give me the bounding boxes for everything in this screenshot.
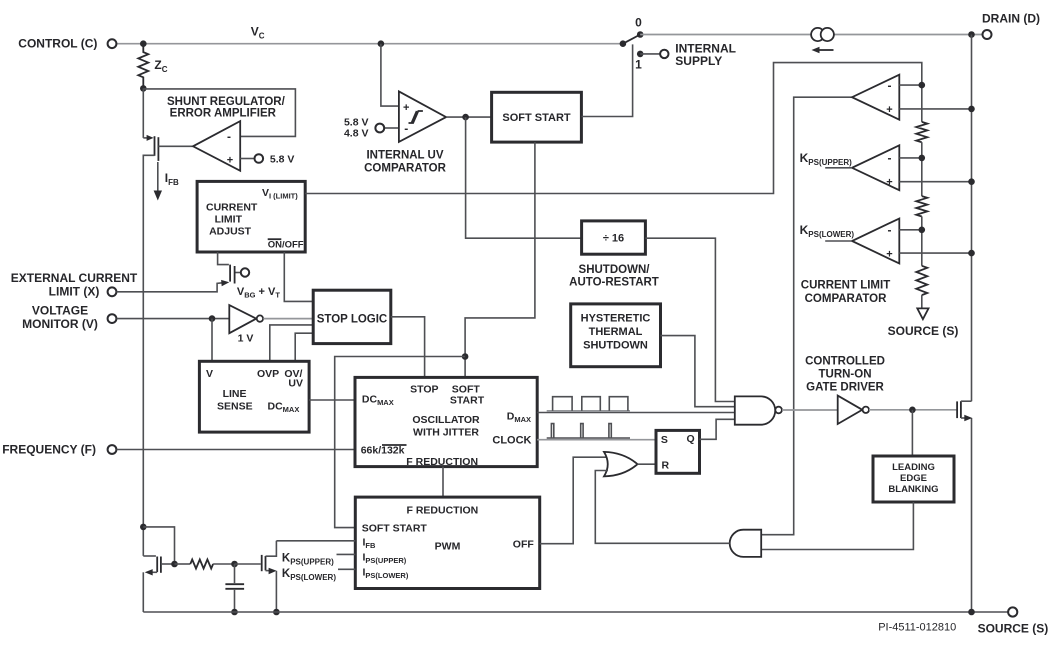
svg-text:PI-4511-012810: PI-4511-012810 — [878, 621, 956, 633]
wire soft start to switch — [581, 44, 632, 116]
svg-text:LEADING: LEADING — [892, 462, 935, 473]
node junction chain top — [919, 82, 926, 89]
transistor Q5 output MOSFET — [956, 401, 958, 418]
svg-text:TURN-ON: TURN-ON — [818, 368, 871, 380]
wire latch Q output to NAND — [700, 419, 738, 439]
svg-text:DRAIN (D): DRAIN (D) — [982, 12, 1040, 26]
divide-by-16 box — [582, 221, 646, 254]
svg-text:+: + — [403, 102, 409, 114]
svg-text:66k/132k: 66k/132k — [361, 444, 405, 456]
svg-text:F REDUCTION: F REDUCTION — [407, 504, 479, 516]
svg-text:LIMIT (X): LIMIT (X) — [49, 285, 100, 299]
transistor Q4 current mirror output — [261, 555, 263, 571]
svg-text:LIMIT: LIMIT — [215, 214, 243, 226]
wire comparator 1 - input — [899, 84, 922, 86]
node junction drain sense 1 — [968, 106, 975, 113]
wire comparator 2 - input — [899, 157, 922, 159]
svg-text:SOFT START: SOFT START — [362, 522, 428, 534]
wire K_PS(LOWER) stub to PWM — [338, 568, 355, 570]
resistor R3 divider bottom — [916, 266, 927, 295]
wire soft start bottom to soft start net — [465, 142, 535, 377]
wire V junction down to line sense — [211, 319, 213, 362]
svg-text:+: + — [227, 154, 233, 166]
svg-text:R: R — [662, 460, 670, 472]
transistor Q1 shunt MOSFET — [143, 137, 150, 139]
svg-text:ERROR AMPLIFIER: ERROR AMPLIFIER — [170, 108, 277, 120]
node junction capacitor to rail — [231, 609, 238, 616]
svg-text:SHUTDOWN: SHUTDOWN — [583, 339, 648, 351]
node junction chain 3 — [919, 227, 926, 234]
svg-text:CURRENT LIMIT: CURRENT LIMIT — [801, 279, 890, 291]
svg-text:SENSE: SENSE — [217, 400, 253, 412]
terminal SOURCE (S) — [1008, 607, 1017, 616]
svg-text:Q: Q — [687, 433, 695, 445]
node junction V input — [209, 315, 216, 322]
svg-text:SOURCE (S): SOURCE (S) — [978, 621, 1049, 635]
svg-text:-: - — [404, 122, 408, 136]
node junction on V_C at Z_C — [140, 40, 147, 47]
wire V input — [117, 318, 230, 320]
node junction drain — [968, 31, 975, 38]
wire gate node to resistor R4 — [175, 563, 191, 565]
wire drain vertical rail — [971, 35, 973, 402]
node junction chain 2 — [919, 155, 926, 162]
wire soft start net to PWM — [335, 357, 465, 528]
svg-text:ADJUST: ADJUST — [209, 226, 252, 238]
svg-text:1: 1 — [635, 58, 642, 72]
svg-text:STOP: STOP — [410, 383, 438, 395]
wire line sense DC_MAX to oscillator — [309, 399, 355, 401]
svg-text:MONITOR (V): MONITOR (V) — [22, 317, 98, 331]
svg-text:CONTROLLED: CONTROLLED — [805, 355, 885, 367]
hysteretic thermal shutdown box — [571, 304, 661, 367]
node switch pivot — [620, 40, 627, 47]
leading edge blanking box — [873, 456, 954, 502]
svg-text:1 V: 1 V — [238, 333, 254, 345]
wire PWM OFF output to OR gate — [540, 457, 608, 544]
svg-text:BLANKING: BLANKING — [888, 484, 938, 495]
node junction drain sense 3 — [968, 250, 975, 257]
node junction UV output — [462, 114, 469, 121]
wire filter node to Q4 gate — [235, 563, 261, 565]
switch lever — [623, 35, 640, 44]
svg-text:ON/OFF: ON/OFF — [268, 239, 304, 250]
op-amp U1 shunt regulator / error amplifier — [193, 121, 240, 171]
wire NAND output to gate driver inverter — [782, 409, 838, 411]
svg-text:OFF: OFF — [513, 538, 535, 550]
wire V_C bus — [117, 43, 623, 45]
wire CLOCK output to latch S — [537, 439, 656, 441]
node junction soft start net — [462, 353, 469, 360]
svg-text:LINE: LINE — [223, 388, 247, 400]
svg-text:SHUNT REGULATOR/: SHUNT REGULATOR/ — [167, 96, 286, 108]
waveform D_MAX — [547, 410, 630, 412]
oscillator box — [355, 377, 537, 466]
OR gate — [604, 452, 638, 477]
inverter 1V comparator — [229, 305, 256, 333]
wire K_PS(UPPER) stub to PWM — [337, 553, 356, 555]
wire 1V inverter output to stop logic — [263, 318, 313, 320]
AND gate U5 (points left) — [730, 530, 762, 557]
transistor Q3 current mirror input — [143, 555, 156, 557]
svg-text:-: - — [888, 223, 892, 237]
svg-text:COMPARATOR: COMPARATOR — [364, 163, 446, 175]
wire V_C to UV comparator + input — [381, 44, 399, 106]
wire UV output down to divide-by-16 — [466, 117, 582, 238]
node junction bottom-left rail — [140, 524, 147, 531]
resistor R4 — [190, 560, 213, 569]
svg-text:OSCILLATOR: OSCILLATOR — [412, 414, 480, 426]
wire X input to Q2 source — [117, 283, 223, 292]
terminal DRAIN (D) — [983, 30, 992, 39]
wire AND output to OR gate — [595, 471, 729, 544]
wire gate of Q1 to op-amp output — [158, 145, 193, 147]
svg-text:EXTERNAL CURRENT: EXTERNAL CURRENT — [11, 271, 138, 285]
svg-text:SOURCE (S): SOURCE (S) — [888, 324, 959, 338]
terminal 5.8V/4.8V UV threshold — [384, 127, 399, 129]
wire chain segment — [921, 216, 923, 265]
current source I1 — [811, 28, 824, 41]
svg-text:START: START — [450, 394, 485, 406]
wire LEB output to AND gate — [761, 502, 913, 550]
wire bottom source rail — [143, 611, 1008, 613]
svg-text:INTERNAL UV: INTERNAL UV — [366, 150, 443, 162]
wire OR output to latch R — [638, 463, 657, 465]
svg-text:VBG + VT: VBG + VT — [237, 286, 280, 300]
wire comparator 3 - input — [899, 229, 922, 231]
op-amp U7 current limit comparator 2 — [852, 145, 899, 190]
node junction Q3 gate node — [171, 561, 178, 568]
wire comparator 3 + input — [899, 252, 971, 254]
svg-text:WITH JITTER: WITH JITTER — [413, 426, 479, 438]
latch S-R — [656, 430, 700, 473]
wire frequency input — [117, 449, 356, 451]
svg-text:5.8 V: 5.8 V — [270, 153, 295, 165]
svg-text:COMPARATOR: COMPARATOR — [805, 293, 887, 305]
wire gate node down to leading edge blanking — [911, 410, 913, 456]
transistor Q2 external current limit MOSFET — [218, 252, 229, 265]
node switch contact 1 — [637, 51, 644, 58]
I_FB current arrow — [157, 162, 159, 194]
svg-text:-: - — [888, 151, 892, 165]
PWM box — [355, 497, 539, 588]
line sense box — [199, 361, 309, 432]
wire chain segment — [921, 142, 923, 196]
capacitor C1 — [234, 564, 236, 583]
svg-text:SUPPLY: SUPPLY — [675, 54, 722, 68]
svg-text:CLOCK: CLOCK — [492, 434, 531, 446]
op-amp U6 current limit comparator 1 — [852, 75, 899, 120]
svg-text:V: V — [206, 368, 213, 380]
wire comparator 2 output stub — [825, 167, 852, 169]
svg-text:+: + — [886, 249, 892, 261]
wire ON/OFF to stop logic — [284, 252, 313, 301]
wire divide-by-16 output to NAND — [645, 238, 737, 401]
wire rail to Q3 gate (diode connection) — [143, 527, 174, 564]
inverter U4 gate driver — [838, 396, 863, 424]
svg-text:UV: UV — [288, 378, 303, 390]
resistor R1 divider top — [916, 122, 927, 142]
wire gate driver output to output MOSFET gate — [869, 409, 957, 411]
node junction drain sense 2 — [968, 178, 975, 185]
wire thermal shutdown output to NAND — [661, 336, 738, 407]
node junction V_C at UV comparator tap — [378, 40, 385, 47]
svg-text:+: + — [886, 104, 892, 116]
resistor Z_C — [138, 44, 148, 89]
svg-text:-: - — [227, 130, 231, 144]
node junction output MOSFET source to rail — [968, 609, 975, 616]
svg-text:EDGE: EDGE — [900, 473, 927, 484]
svg-text:STOP LOGIC: STOP LOGIC — [317, 313, 388, 325]
node switch contact 0 — [637, 31, 644, 38]
wire left rail from Z_C down to shunt transistor — [142, 88, 144, 137]
wire D_MAX output to NAND — [537, 412, 737, 414]
wire OV/UV to stop logic — [295, 333, 313, 361]
node junction filter node — [231, 561, 238, 568]
node junction gate drive — [909, 407, 916, 414]
node junction Q4 source to rail — [273, 609, 280, 616]
wire comparator 2 + input — [899, 181, 971, 183]
wire OVP to stop logic — [270, 325, 313, 361]
wire UV comparator output to soft start — [446, 116, 492, 118]
wire I_FB to PWM — [276, 540, 355, 542]
terminal VOLTAGE MONITOR (V) — [108, 314, 117, 323]
wire U1 + input to 5.8V reference — [240, 158, 254, 160]
wire stop logic output to oscillator STOP — [391, 317, 425, 378]
wire F REDUCTION to PWM — [442, 467, 444, 498]
terminal 5.8 V reference — [254, 154, 263, 163]
wire V_I(LIMIT) to current limit comparator chain — [305, 63, 922, 194]
svg-text:FREQUENCY (F): FREQUENCY (F) — [2, 443, 96, 457]
svg-text:THERMAL: THERMAL — [589, 326, 643, 338]
shunt regulator label box (open bottom, feedback path) — [143, 89, 295, 136]
svg-text:F REDUCTION: F REDUCTION — [406, 456, 478, 468]
svg-text:4.8 V: 4.8 V — [344, 128, 369, 140]
svg-text:HYSTERETIC: HYSTERETIC — [581, 312, 651, 324]
terminal FREQUENCY (F) — [108, 445, 117, 454]
svg-text:GATE DRIVER: GATE DRIVER — [806, 381, 884, 393]
svg-text:-: - — [888, 79, 892, 93]
svg-text:CURRENT: CURRENT — [206, 202, 258, 214]
terminal CONTROL (C) — [108, 39, 117, 48]
waveform CLOCK — [547, 437, 630, 439]
svg-text:+: + — [886, 177, 892, 189]
op-amp U8 current limit comparator 3 — [852, 219, 899, 264]
wire contact 1 to internal supply terminal — [640, 53, 660, 55]
svg-text:SHUTDOWN/: SHUTDOWN/ — [579, 264, 651, 276]
svg-text:÷ 16: ÷ 16 — [603, 233, 624, 245]
wire to source arrow — [921, 295, 923, 308]
resistor R2 divider middle — [916, 196, 927, 216]
wire comparator 1 + input — [899, 108, 971, 110]
svg-text:PWM: PWM — [435, 540, 461, 552]
soft start box — [492, 92, 582, 142]
wire switch contact 0 to drain rail — [640, 34, 811, 36]
current limit adjust box — [197, 181, 305, 252]
svg-text:CONTROL (C): CONTROL (C) — [18, 37, 97, 51]
stop logic box — [313, 290, 391, 343]
svg-text:OVP: OVP — [257, 368, 279, 380]
wire comparator output bus down to AND gate — [761, 97, 852, 535]
svg-text:AUTO-RESTART: AUTO-RESTART — [569, 276, 659, 288]
node junction below Z_C — [140, 85, 147, 92]
wire resistor to filter node — [213, 563, 234, 565]
source arrow symbol — [917, 308, 928, 319]
terminal INTERNAL SUPPLY — [660, 50, 668, 58]
svg-text:S: S — [661, 434, 668, 446]
wire comparator 3 output stub — [825, 240, 852, 242]
NAND gate U3 — [735, 396, 775, 424]
svg-text:VOLTAGE: VOLTAGE — [32, 303, 88, 317]
svg-text:5.8 V: 5.8 V — [344, 116, 369, 128]
svg-text:SOFT START: SOFT START — [502, 112, 571, 124]
op-amp U2 internal UV comparator — [399, 91, 446, 141]
svg-text:0: 0 — [635, 16, 642, 30]
terminal EXTERNAL CURRENT LIMIT (X) — [108, 287, 117, 296]
